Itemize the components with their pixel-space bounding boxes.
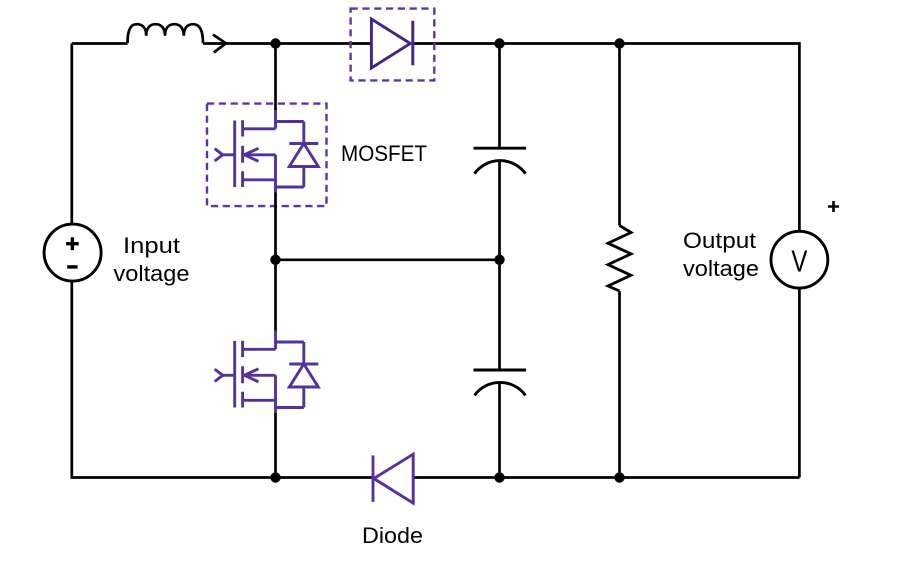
node: top rail / R1 [614,38,624,48]
voltage source VS circle [44,224,101,281]
wire: drain of Q1 from top rail down [274,44,277,111]
svg-text:voltage: voltage [114,261,190,286]
node: bottom rail / R1 [614,472,624,482]
diode D1 (top, pointing right) [371,19,412,68]
node: bottom rail / Q2 source [270,472,280,482]
svg-text:Diode: Diode [362,523,423,548]
wire: left rail below source to bottom-left corner, bottom rail to diode D2 [72,281,373,477]
svg-text:Output: Output [683,228,756,253]
voltmeter VM circle [771,231,828,288]
svg-text:V: V [791,244,807,279]
dashed box around MOSFET Q1 [207,104,327,207]
wire: left rail (top corner down to source) [70,44,73,225]
wire: Q2 source down to bottom rail [274,413,277,478]
diode D2 (bottom, pointing left) [373,454,413,503]
resistor R1 (zigzag) [608,226,631,292]
inductor L1 [128,24,204,43]
svg-text:Input: Input [123,233,180,258]
node: middle rail / MOSFET midpoint [270,255,280,265]
capacitor C2 (lower) [474,370,527,395]
voltage source plus sign [66,237,79,250]
wire: Q1 source down through middle node to Q2 drain [274,192,277,330]
voltmeter plus sign [828,201,839,212]
node: middle rail / capacitor midpoint [494,255,504,265]
junction node dots [270,38,624,482]
dashed box around diode D1 [351,9,435,81]
wire: top rail from diode D1 to top-right corner, right rail down to voltmeter [413,44,800,232]
wire: top rail from inductor to diode D1 [203,42,371,45]
wire: middle horizontal (node to capacitor column) [276,258,500,261]
MOSFET Q2 (lower, with body diode) [215,331,319,413]
node: top rail / Q1 drain [270,38,280,48]
wire: between C1 and C2 through middle node [498,161,501,370]
capacitor C1 (upper) [474,148,527,173]
wire: resistor column top [618,44,621,226]
node: top rail / C1 [494,38,504,48]
wire: bottom rail from diode D2 to bottom-right corner, up to voltmeter bottom [413,288,799,477]
wire: top rail left segment (source to inductor) [72,42,128,45]
wire: resistor to bottom rail [618,291,621,478]
svg-text:voltage: voltage [683,256,759,281]
MOSFET Q1 (upper, with body diode) [215,110,319,192]
wire: capacitor column top (node to C1) [498,44,501,149]
node: bottom rail / C2 [494,472,504,482]
voltage source minus sign [67,265,77,268]
current direction arrow [213,35,226,53]
svg-text:MOSFET: MOSFET [341,141,427,166]
wire: C2 to bottom rail [498,383,501,478]
